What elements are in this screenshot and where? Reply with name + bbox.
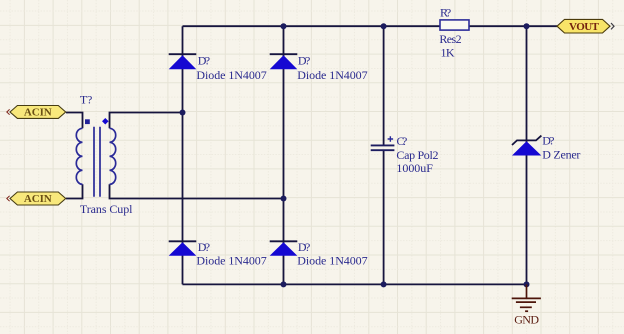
svg-text:Diode 1N4007: Diode 1N4007: [196, 254, 266, 268]
svg-text:VOUT: VOUT: [569, 21, 600, 33]
svg-text:R?: R?: [440, 6, 451, 20]
svg-text:D?: D?: [198, 54, 210, 68]
svg-text:Diode 1N4007: Diode 1N4007: [297, 254, 367, 268]
svg-text:D?: D?: [542, 133, 554, 147]
svg-text:D Zener: D Zener: [542, 148, 580, 162]
svg-text:T?: T?: [80, 92, 92, 106]
svg-text:Cap Pol2: Cap Pol2: [396, 148, 438, 162]
svg-text:GND: GND: [514, 312, 539, 326]
svg-text:Diode 1N4007: Diode 1N4007: [196, 68, 266, 82]
svg-text:Trans Cupl: Trans Cupl: [80, 202, 133, 216]
svg-text:Diode 1N4007: Diode 1N4007: [297, 68, 367, 82]
svg-text:1K: 1K: [441, 46, 455, 60]
svg-text:1000uF: 1000uF: [396, 161, 433, 175]
svg-text:Res2: Res2: [439, 32, 461, 46]
svg-text:D?: D?: [298, 240, 310, 254]
svg-text:ACIN: ACIN: [24, 106, 52, 118]
svg-text:ACIN: ACIN: [24, 193, 52, 205]
svg-text:D?: D?: [298, 54, 310, 68]
svg-text:C?: C?: [397, 134, 408, 148]
svg-text:D?: D?: [198, 240, 210, 254]
